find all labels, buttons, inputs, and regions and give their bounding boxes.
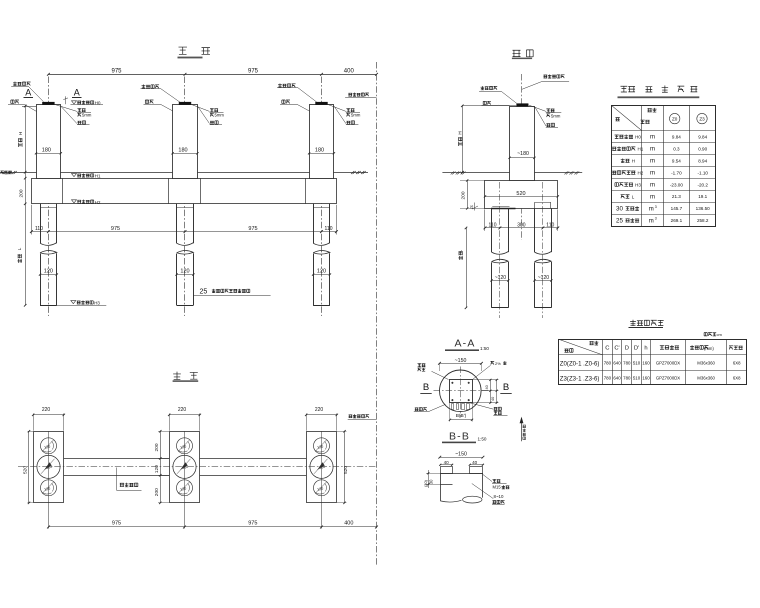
svg-text:9.84: 9.84 <box>672 135 681 140</box>
plan column circle (footing 2) <box>173 455 196 478</box>
H dim (side) <box>462 105 509 107</box>
svg-text:30: 30 <box>616 206 623 213</box>
svg-text:3: 3 <box>655 205 657 209</box>
svg-text:400: 400 <box>344 69 355 75</box>
plan column circle (footing 1) <box>37 455 60 478</box>
plan footing 2 axis <box>184 431 186 528</box>
svg-text:H0: H0 <box>635 135 641 140</box>
ground hatch right <box>351 171 366 174</box>
svg-text:21.3: 21.3 <box>672 194 681 199</box>
svg-text:160: 160 <box>642 360 650 365</box>
svg-text:3: 3 <box>655 217 657 221</box>
svg-text:120: 120 <box>180 269 189 275</box>
column (side) <box>510 107 535 181</box>
svg-text:Z3(Z3-1 .Z3-6): Z3(Z3-1 .Z3-6) <box>560 376 600 383</box>
plan dim 520 (left) <box>28 431 30 503</box>
direction arrow <box>521 420 523 442</box>
svg-text:H3: H3 <box>635 182 641 187</box>
label 垫石 5mm column3 right <box>328 104 346 111</box>
bridge centerline (vertical dash-dot, right) <box>376 62 378 565</box>
label 锚栓 column2 right <box>198 106 210 123</box>
svg-text:cm: cm <box>717 332 723 337</box>
table1 header pier Z0 <box>670 113 680 123</box>
plan dim 520 (right) <box>344 431 346 503</box>
A-A column circle <box>440 370 482 412</box>
label 支座 (side) <box>483 101 491 104</box>
label 垫石 5mm column1 right <box>55 104 77 111</box>
svg-text:40: 40 <box>491 397 495 401</box>
svg-text:1:50: 1:50 <box>480 346 489 351</box>
svg-text:M36x360: M36x360 <box>697 360 715 365</box>
level mark H2 (footing bottom) <box>72 200 77 203</box>
table1 header pier Z3 <box>697 113 707 123</box>
A-A right dim chain 40/40 <box>472 379 499 381</box>
svg-text:H2: H2 <box>638 170 644 175</box>
svg-text:30: 30 <box>428 479 433 484</box>
svg-text:5mm: 5mm <box>551 113 561 118</box>
svg-text:5mm: 5mm <box>215 113 225 118</box>
footing segment joints <box>62 178 64 204</box>
pile centerlines (side) <box>499 182 501 318</box>
A-A bearing pad square <box>450 380 473 403</box>
svg-text:180: 180 <box>178 147 187 153</box>
svg-text:GPZ7000DX: GPZ7000DX <box>656 360 680 365</box>
svg-text:H: H <box>458 131 463 134</box>
rotated label 桩长L <box>17 254 21 263</box>
A-A anchor bolts <box>452 382 454 384</box>
plan column circle (footing 3) <box>310 455 333 478</box>
svg-text:269.1: 269.1 <box>671 218 683 223</box>
A-A label 垫石 (top-left) <box>418 364 426 367</box>
svg-text:D: D <box>625 346 629 352</box>
label 支座 column1 <box>11 100 19 103</box>
deck level mark H0 <box>72 101 77 104</box>
svg-text:200: 200 <box>460 191 466 199</box>
svg-text:220: 220 <box>178 407 187 413</box>
A-A grout teeth <box>452 404 454 410</box>
plan pile circle top (footing 3) <box>314 438 330 454</box>
svg-text:9.84: 9.84 <box>698 135 707 140</box>
svg-text:120: 120 <box>44 269 53 275</box>
plan pile circle top (footing 1) <box>41 438 57 454</box>
label 支座垫石 column3 <box>278 83 295 87</box>
svg-text:m: m <box>650 135 655 141</box>
svg-text:25: 25 <box>200 289 208 296</box>
svg-text:~180: ~180 <box>517 151 529 157</box>
svg-text:B-B: B-B <box>449 430 470 442</box>
table1 frame <box>612 106 716 227</box>
B-B break line bottom <box>440 500 461 502</box>
svg-text:6X8: 6X8 <box>733 360 741 365</box>
svg-text:180: 180 <box>42 147 51 153</box>
plan footing 1 axis <box>48 431 50 528</box>
B-B pad/column body <box>440 473 442 501</box>
svg-text:m: m <box>650 159 655 165</box>
dim line 110/975/975/110 <box>31 231 336 233</box>
plan bottom dim 975/975/400 <box>49 526 377 528</box>
label 支座垫石 (side) <box>481 86 498 90</box>
plan label 大桥中心线 <box>349 414 370 418</box>
svg-text:C: C <box>605 346 609 352</box>
ground hatch left <box>2 171 17 174</box>
svg-text:520: 520 <box>343 466 349 474</box>
table2 frame <box>559 340 747 385</box>
columns (elevation) <box>37 105 61 179</box>
plan tie beam 2-3 <box>200 458 306 460</box>
svg-text:L: L <box>17 247 22 250</box>
svg-text:0.90: 0.90 <box>698 146 707 151</box>
plan pile circle top (footing 2) <box>177 438 193 454</box>
left dim chain: H / 200 / L <box>22 106 36 108</box>
label 锚栓 (side right) <box>535 107 546 127</box>
svg-text:975: 975 <box>112 520 121 526</box>
svg-text:200: 200 <box>154 488 160 496</box>
A-A label 2% slope (top-right) <box>491 361 495 364</box>
svg-text:5mm: 5mm <box>82 113 92 118</box>
svg-text:9.54: 9.54 <box>672 158 681 163</box>
pile cap footing (elevation) <box>32 179 337 204</box>
top dimension line 975/975/400 <box>48 74 376 76</box>
A-A centerlines <box>460 367 462 418</box>
right pile notch in footing <box>535 202 551 204</box>
svg-text:136.50: 136.50 <box>696 206 710 211</box>
ground hatch side-left <box>451 171 466 174</box>
svg-text:300: 300 <box>517 222 526 228</box>
svg-text:1:50: 1:50 <box>478 436 487 441</box>
B-B pad top <box>440 473 483 475</box>
svg-text:m: m <box>649 218 654 224</box>
svg-text:(mm): (mm) <box>704 346 714 351</box>
svg-text:40: 40 <box>485 385 489 389</box>
svg-text:2%: 2% <box>495 361 501 366</box>
label 大桥中心线 (elevation top right) <box>348 93 369 97</box>
piles (side) <box>491 208 493 252</box>
svg-text:8.94: 8.94 <box>698 158 707 163</box>
svg-text:B: B <box>503 382 509 393</box>
svg-text:510: 510 <box>633 360 641 365</box>
svg-text:110: 110 <box>35 226 43 232</box>
svg-text:975: 975 <box>111 226 120 232</box>
svg-text:-1.70: -1.70 <box>671 170 682 175</box>
svg-text:258.2: 258.2 <box>697 218 709 223</box>
svg-text:-20.2: -20.2 <box>697 182 708 187</box>
pier column centerlines (elevation) <box>48 77 50 317</box>
svg-text:220: 220 <box>315 407 324 413</box>
level mark H3 (pile bottom) <box>71 301 76 304</box>
svg-text:D': D' <box>634 346 639 352</box>
svg-text:h: h <box>644 346 647 352</box>
svg-text:m: m <box>650 194 655 200</box>
rotated label 墩高H <box>19 138 23 147</box>
svg-text:780: 780 <box>604 376 612 381</box>
svg-text:H: H <box>18 132 23 135</box>
svg-text:200: 200 <box>18 189 24 197</box>
svg-text:975: 975 <box>111 69 122 75</box>
ground line (side) <box>442 172 582 174</box>
rotated dim 200 (side footing) <box>467 180 469 208</box>
elevation view title 立面 <box>179 47 187 54</box>
svg-text:975: 975 <box>248 226 257 232</box>
plan pile circle bottom (footing 1) <box>41 480 57 496</box>
pile length dim L (side) <box>466 228 468 308</box>
svg-text:H3: H3 <box>94 301 100 306</box>
piles (elevation) <box>40 204 42 243</box>
svg-text:25: 25 <box>616 218 623 225</box>
pile bottom level line extension (pile 1) <box>57 305 107 307</box>
label 垫石 5mm column2 right <box>191 104 209 111</box>
svg-text:~150: ~150 <box>455 358 467 364</box>
table1 title 桩柱要素表 <box>621 86 636 92</box>
A-A label 承台 (bottom-left) <box>415 408 427 411</box>
A-A label 锚栓垫石 (bottom-right) <box>470 403 494 409</box>
dim 110/300/110 (side) <box>485 227 558 229</box>
footing (side) <box>485 181 558 209</box>
plan pile circle bottom (footing 2) <box>177 480 193 496</box>
svg-text:m: m <box>650 171 655 177</box>
svg-text:780: 780 <box>604 360 612 365</box>
plan dims 200/120/200 <box>160 431 162 503</box>
small dim 15 <box>474 203 476 211</box>
svg-text:145.7: 145.7 <box>671 206 683 211</box>
B-B left dims 30/(30) <box>426 473 440 475</box>
svg-text:780: 780 <box>623 360 631 365</box>
pile head chisel line (side) <box>491 208 516 210</box>
svg-text:H1: H1 <box>95 174 101 179</box>
table2 title 支座规格表 <box>630 320 664 326</box>
svg-text:6X8: 6X8 <box>733 376 741 381</box>
label 支座 column2 <box>145 100 153 103</box>
plan label 墩中心线 <box>116 468 118 491</box>
A-A dim B(B') below <box>449 403 451 422</box>
svg-text:220: 220 <box>42 407 51 413</box>
svg-text:B(B'): B(B') <box>456 413 467 419</box>
svg-text:m: m <box>650 183 655 189</box>
table1 data rows <box>615 135 633 139</box>
plan horizontal centerline <box>18 466 377 468</box>
svg-text:~120: ~120 <box>538 275 549 281</box>
svg-text:780: 780 <box>623 376 631 381</box>
svg-text:H1: H1 <box>638 147 644 152</box>
svg-text:520: 520 <box>23 466 29 474</box>
svg-text:640: 640 <box>613 360 621 365</box>
svg-text:19.1: 19.1 <box>698 194 707 199</box>
svg-text:110: 110 <box>325 226 333 232</box>
svg-text:200: 200 <box>154 443 160 451</box>
svg-text:510: 510 <box>633 376 641 381</box>
svg-text:640: 640 <box>613 376 621 381</box>
svg-text:M36x360: M36x360 <box>697 376 715 381</box>
ground label far left <box>1 171 12 174</box>
svg-text:400: 400 <box>344 520 353 526</box>
svg-text:180: 180 <box>315 147 324 153</box>
ground hatch side-right <box>564 171 579 174</box>
svg-text:m: m <box>650 147 655 153</box>
plan footing 1 <box>34 432 64 503</box>
level mark H1 (footing top) <box>72 174 77 177</box>
svg-text:120: 120 <box>317 269 326 275</box>
plan footing 2 <box>170 432 200 503</box>
plan tie beam 1-2 <box>64 458 169 460</box>
bearing pad (side) <box>516 103 528 106</box>
ground line (elevation) <box>0 172 368 174</box>
svg-text:120: 120 <box>154 465 160 473</box>
bearing pads (black) on columns <box>42 102 54 105</box>
svg-text:M15: M15 <box>493 485 502 490</box>
plan pile circle bottom (footing 3) <box>314 480 330 496</box>
svg-text:Z3: Z3 <box>699 117 705 122</box>
small slope tick at column 1 top <box>65 96 67 104</box>
table2 header diagonal <box>558 339 602 355</box>
svg-text:~150: ~150 <box>455 452 467 458</box>
B-B pad bottom edge line <box>440 484 452 486</box>
side view title 側面 <box>513 50 521 56</box>
B-B label 垫石 M15 (right) <box>483 475 492 482</box>
B-B anchor tabs <box>441 467 453 474</box>
svg-text:H: H <box>632 159 635 164</box>
B-B label 8~10 锚栓孔 (right) <box>472 484 494 499</box>
svg-text:5mm: 5mm <box>351 113 361 118</box>
svg-text:A-A: A-A <box>454 337 475 349</box>
label 支座 column3 <box>282 100 290 103</box>
svg-text:(30): (30) <box>423 479 428 487</box>
label 锚栓 column3 right <box>334 106 346 123</box>
svg-text:0.3: 0.3 <box>673 146 680 151</box>
plan footing 3 axis <box>321 431 323 528</box>
svg-text:110: 110 <box>489 222 497 228</box>
label 垫石 5mm (side right) <box>529 105 546 111</box>
pier centerline (side) <box>521 74 523 240</box>
svg-text:975: 975 <box>248 520 257 526</box>
plan footing 3 <box>307 432 337 503</box>
label 支座垫石 column2 <box>142 84 159 88</box>
svg-text:A: A <box>25 87 31 97</box>
svg-text:8~10: 8~10 <box>494 494 504 499</box>
svg-text:-23.00: -23.00 <box>670 182 683 187</box>
svg-text:Z0(Z0-1 .Z0-6): Z0(Z0-1 .Z0-6) <box>560 360 600 367</box>
svg-text:975: 975 <box>248 69 259 75</box>
svg-text:H2: H2 <box>95 200 101 205</box>
svg-text:-1.10: -1.10 <box>697 170 708 175</box>
svg-text:B: B <box>423 382 429 393</box>
label 锚栓 column1 right <box>61 106 77 123</box>
svg-text:m: m <box>649 206 654 212</box>
svg-text:GPZ7000DX: GPZ7000DX <box>656 376 680 381</box>
label 支座垫石 column1 <box>13 82 30 86</box>
svg-text:C': C' <box>614 346 619 352</box>
svg-text:~120: ~120 <box>495 275 506 281</box>
svg-text:Z0: Z0 <box>672 117 678 122</box>
svg-text:160: 160 <box>642 376 650 381</box>
left pile notch line <box>492 206 509 208</box>
plan view title 平面 <box>173 372 181 380</box>
table2 unit note <box>704 333 716 336</box>
svg-text:110: 110 <box>546 222 554 228</box>
svg-text:A: A <box>74 87 80 97</box>
label 桥墩中心线 (side) <box>544 74 565 78</box>
table1 header diagonal <box>612 105 642 130</box>
